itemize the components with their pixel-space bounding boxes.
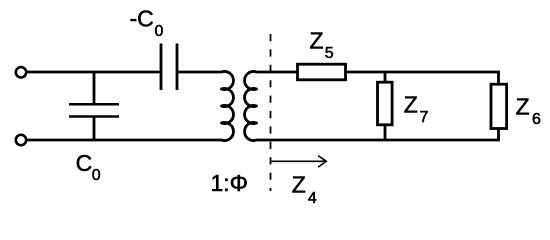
impedance Z7 (shunt box) <box>378 82 393 125</box>
svg-text:Z: Z <box>292 171 306 197</box>
wire bottom-right (transformer secondary to Z6 bottom) <box>257 129 499 141</box>
wire top (series capacitor to transformer primary) <box>178 71 221 74</box>
impedance Z5 (series box) <box>298 64 346 80</box>
svg-text:Z: Z <box>516 94 530 120</box>
wire (shunt capacitor bottom stem) <box>93 117 96 141</box>
svg-text:5: 5 <box>325 45 334 62</box>
wire (shunt capacitor top stem) <box>93 72 96 104</box>
arrow Z4 (impedance looking right) <box>272 156 327 168</box>
svg-text:4: 4 <box>308 190 317 207</box>
capacitor C0 (shunt, plates) <box>69 104 119 116</box>
inductor L2 (transformer secondary winding) <box>245 72 257 141</box>
svg-text:0: 0 <box>92 167 101 184</box>
dashed reference line <box>270 34 272 191</box>
wire bottom-left (port to transformer primary) <box>27 139 222 142</box>
svg-text:1:Φ: 1:Φ <box>211 170 249 196</box>
wire (Z7 bottom stem) <box>384 125 387 140</box>
svg-text:Z: Z <box>404 92 418 118</box>
svg-text:0: 0 <box>155 23 164 40</box>
wire top-left (port to series capacitor) <box>27 71 160 74</box>
capacitor -C0 (series, plates) <box>161 44 177 91</box>
wire (Z7 top stem) <box>384 72 387 82</box>
svg-text:-C: -C <box>130 6 154 32</box>
svg-text:Z: Z <box>310 28 324 54</box>
svg-text:6: 6 <box>532 111 541 128</box>
wire top (Z5 to right corner, down to Z6) <box>346 72 499 84</box>
terminal P2 (bottom-left port circle) <box>16 135 26 145</box>
terminal P1 (top-left port circle) <box>16 67 26 77</box>
svg-text:7: 7 <box>420 109 429 126</box>
impedance Z6 (shunt box at right) <box>491 84 507 128</box>
wire top (transformer secondary to Z5) <box>257 71 298 74</box>
inductor L1 (transformer primary winding) <box>222 72 234 141</box>
svg-text:C: C <box>76 150 93 176</box>
